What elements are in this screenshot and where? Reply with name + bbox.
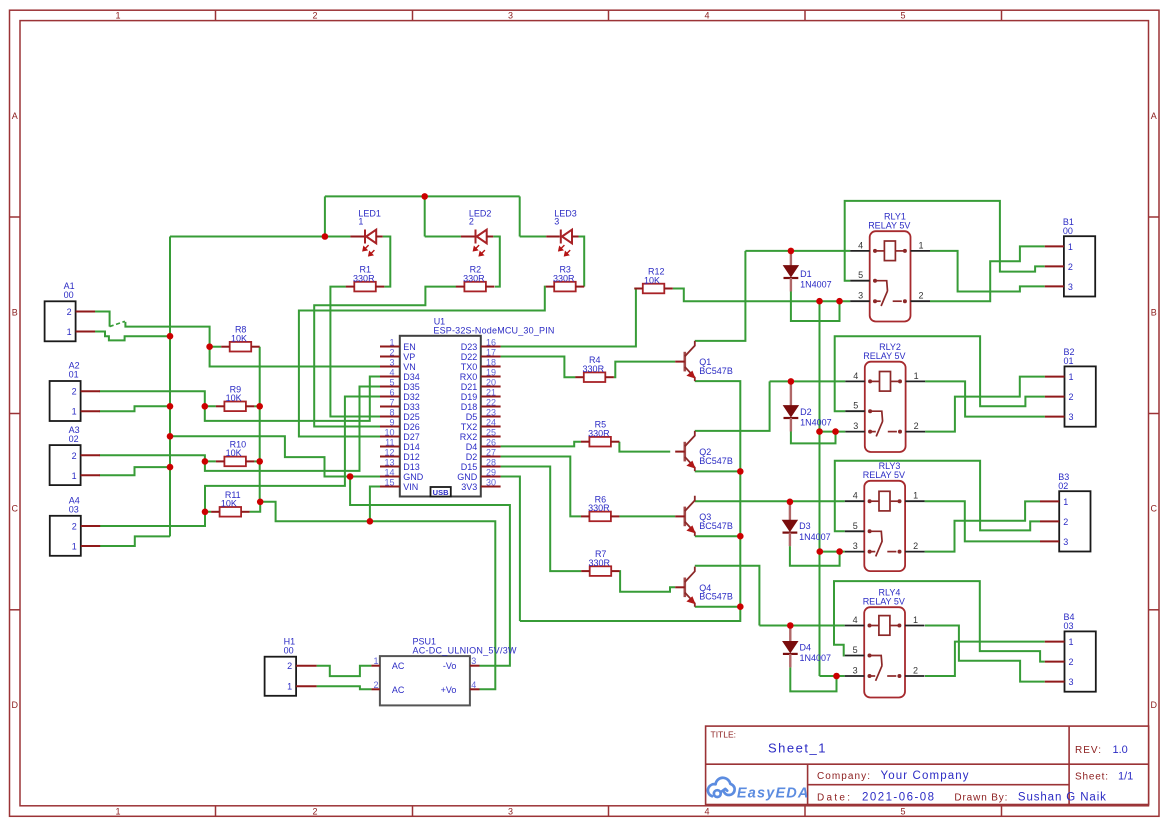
svg-text:1: 1 [1068, 242, 1073, 252]
relay RLY2 coil [868, 372, 902, 392]
relay RLY3 switch [868, 529, 902, 556]
svg-text:D12: D12 [403, 452, 420, 462]
connector A4 pin 2 [81, 525, 100, 527]
ruler column numbers bottom [115, 807, 905, 817]
svg-text:02: 02 [69, 434, 79, 444]
connector B2 body [1065, 366, 1096, 426]
LED LED1 symbol [365, 230, 376, 244]
svg-text:03: 03 [69, 505, 79, 515]
junction dot 24 [836, 298, 843, 305]
svg-text:3: 3 [389, 358, 394, 368]
resistor R10 right pin [246, 460, 255, 462]
svg-text:D25: D25 [403, 412, 420, 422]
svg-text:D2: D2 [466, 452, 478, 462]
diode D2 anode lead [790, 381, 792, 405]
resistor R7 left pin [581, 570, 590, 572]
connector B2 pin 2 [1045, 396, 1065, 398]
wire RLY1 pin1 to B1 pin3 [930, 251, 1045, 292]
IC U1 pin 17 D22 [481, 356, 501, 358]
svg-text:B: B [12, 308, 18, 318]
wire IC pin16 D23 to R12 [501, 289, 636, 347]
svg-text:5: 5 [389, 378, 394, 388]
relay RLY4 pin 3 [845, 675, 865, 677]
svg-text:D2: D2 [800, 407, 812, 417]
IC U1 pin 5 D35 [380, 386, 400, 388]
junction dot 17 [737, 533, 744, 540]
IC U1 pin 7 D33 [380, 406, 400, 408]
LED LED3 emission arrows [559, 245, 570, 256]
svg-text:D27: D27 [403, 432, 420, 442]
wire R8 right to pullup rail [259, 347, 261, 502]
svg-text:3: 3 [1063, 537, 1068, 547]
diode D3 cathode bar [783, 531, 798, 533]
svg-text:Company:: Company: [817, 771, 870, 782]
wire LED2 cathode [425, 236, 461, 238]
wire R12 to RLY1 pin3 [673, 289, 850, 302]
connector B1 labels [1063, 217, 1074, 236]
svg-text:330R: 330R [463, 273, 485, 283]
connector A2 pin 2 [81, 390, 100, 392]
svg-text:2: 2 [913, 666, 918, 676]
junction dot 11 [256, 403, 263, 410]
junction dot 26 [832, 428, 839, 435]
svg-text:D35: D35 [403, 382, 420, 392]
svg-text:330R: 330R [583, 364, 605, 374]
svg-text:ESP-32S-NodeMCU_30_PIN: ESP-32S-NodeMCU_30_PIN [433, 326, 554, 336]
resistor R4 body [584, 372, 606, 382]
junction dot 27 [817, 548, 824, 555]
resistor R6 left pin [581, 515, 590, 517]
svg-text:AC: AC [392, 685, 405, 695]
svg-text:00: 00 [64, 290, 74, 300]
junction dot 14 [367, 518, 374, 525]
svg-text:2: 2 [389, 348, 394, 358]
svg-text:9: 9 [389, 418, 394, 428]
IC U1 pin 1 EN [380, 346, 400, 348]
svg-text:28: 28 [486, 458, 496, 468]
svg-text:5: 5 [853, 401, 858, 411]
connector H1 labels [284, 636, 296, 655]
connector A1 labels [64, 281, 75, 300]
junction dot 20 [788, 378, 795, 385]
svg-text:4: 4 [853, 615, 858, 625]
svg-text:BC547B: BC547B [699, 592, 733, 602]
svg-text:1: 1 [72, 471, 77, 481]
svg-text:21: 21 [486, 388, 496, 398]
wire A2 pin1 [99, 406, 170, 411]
wire R11 right to rail [250, 502, 261, 512]
svg-text:1: 1 [913, 491, 918, 501]
title block frame [706, 726, 1149, 804]
wire LED2 rail drop [424, 196, 426, 236]
svg-text:11: 11 [385, 438, 394, 448]
LED LED2 right pin [487, 236, 494, 238]
svg-text:22: 22 [486, 398, 496, 408]
svg-text:4: 4 [704, 807, 709, 817]
svg-text:D: D [11, 700, 18, 710]
resistor R10 left pin [216, 460, 225, 462]
resistor R9 left pin [216, 405, 225, 407]
svg-text:GND: GND [403, 472, 424, 482]
wire R10 right to rail [254, 460, 259, 462]
IC U1 pin 2 VP [380, 356, 400, 358]
svg-text:REV:: REV: [1075, 745, 1101, 756]
svg-text:Sheet:: Sheet: [1075, 772, 1108, 783]
wire Q4 emitter [695, 606, 741, 608]
svg-text:330R: 330R [553, 273, 575, 283]
svg-text:Sushan G Naik: Sushan G Naik [1018, 791, 1106, 803]
wire A4 pin2 to R11 [100, 512, 211, 526]
IC U1 pin 22 D18 [481, 406, 501, 408]
svg-text:2: 2 [914, 421, 919, 431]
resistor R5 body [589, 437, 611, 447]
svg-text:2: 2 [312, 807, 317, 817]
relay RLY1 body [870, 231, 911, 321]
svg-text:19: 19 [486, 368, 496, 378]
resistor R6 body [589, 512, 611, 522]
resistor R3 left pin [546, 286, 555, 288]
svg-text:B: B [1151, 308, 1157, 318]
power module PSU1 body [380, 656, 470, 705]
diode D1 triangle [784, 266, 799, 277]
relay RLY4 pin 4 [845, 625, 865, 627]
wire LED3 rail drop right [519, 196, 521, 236]
connector B4 pin 1 [1045, 641, 1065, 643]
wire RLY4 pin1 to B4 pin3 [925, 626, 1045, 682]
svg-text:1: 1 [67, 327, 72, 337]
svg-text:10K: 10K [644, 275, 660, 285]
IC U1 pin 11 D14 [380, 446, 400, 448]
resistor R3 body [554, 282, 576, 292]
relay RLY4 coil [868, 616, 902, 636]
svg-text:2: 2 [287, 661, 292, 671]
transistor Q3 base lead [675, 515, 685, 517]
svg-text:23: 23 [486, 408, 496, 418]
svg-text:BC547B: BC547B [699, 521, 733, 531]
relay RLY2 body [865, 362, 906, 452]
resistor R1 right pin [376, 286, 385, 288]
svg-text:C: C [11, 504, 18, 514]
relay RLY4 pin 1 [905, 625, 925, 627]
junction dot 29 [833, 673, 840, 680]
transistor Q1 emitter with arrow [685, 367, 696, 381]
svg-text:RX2: RX2 [460, 432, 478, 442]
svg-text:1: 1 [287, 682, 292, 692]
wire Q2 emitter [695, 470, 741, 472]
svg-text:4: 4 [858, 240, 863, 250]
junction dot 5 [167, 433, 174, 440]
svg-text:-Vo: -Vo [443, 661, 457, 671]
svg-text:25: 25 [486, 428, 496, 438]
transistor Q2 emitter with arrow [685, 457, 696, 471]
wire LED3 anode to R3 [579, 237, 585, 287]
svg-text:D: D [1150, 700, 1157, 710]
svg-text:14: 14 [384, 468, 394, 478]
LED LED2 emission arrows [474, 245, 485, 256]
svg-text:RELAY 5V: RELAY 5V [863, 470, 905, 480]
relay RLY1 coil [873, 241, 907, 261]
wire LED2 anode to R2 [493, 237, 500, 287]
svg-text:D18: D18 [461, 402, 478, 412]
connector B2 pin 3 [1045, 416, 1065, 418]
svg-text:30: 30 [486, 478, 496, 488]
relay RLY3 pin 1 [905, 500, 925, 502]
wire D1 cathode return [791, 292, 840, 322]
svg-text:3: 3 [554, 216, 559, 226]
resistor R2 right pin [486, 286, 495, 288]
diode D3 anode lead [789, 502, 791, 520]
wire VIN node to PSU +Vo [370, 521, 495, 689]
IC U1 pin 23 D5 [481, 416, 501, 418]
svg-text:2: 2 [312, 10, 317, 20]
svg-text:4: 4 [471, 680, 476, 690]
svg-text:1: 1 [914, 371, 919, 381]
diode D3 cathode lead [789, 533, 791, 547]
wire R5 to Q2 base [619, 442, 670, 452]
svg-text:01: 01 [69, 370, 79, 380]
svg-text:D13: D13 [403, 462, 420, 472]
wire GND node to input common [170, 436, 350, 476]
transistor Q4 base lead [675, 586, 685, 588]
PSU1 pin 2 AC [371, 688, 380, 690]
transistor Q3 collector [685, 496, 695, 512]
transistor Q3 emitter with arrow [685, 522, 696, 536]
relay RLY3 pin 2 [905, 551, 925, 553]
IC U1 pin 12 D12 [380, 456, 400, 458]
junction dot 21 [787, 499, 794, 506]
wire R3 to IC pin10 D27 [299, 287, 546, 437]
connector A2 pin 1 [81, 410, 100, 412]
svg-text:BC547B: BC547B [699, 456, 733, 466]
wire rail to VIN row [260, 502, 370, 522]
diode D4 anode lead [789, 626, 791, 642]
resistor R2 body [464, 282, 486, 292]
junction dot 7 [206, 343, 213, 350]
connector A4 body [50, 516, 81, 556]
LED LED3 left pin [546, 236, 560, 238]
svg-text:26: 26 [486, 438, 496, 448]
svg-text:10K: 10K [231, 334, 247, 344]
svg-text:1: 1 [1069, 637, 1074, 647]
switch actuator dashed on A1 pin2 [110, 321, 125, 326]
IC U1 pin 6 D32 [380, 396, 400, 398]
IC U1 pin 4 D34 [380, 376, 400, 378]
wire A2 pin2 to R9 [99, 391, 215, 406]
connector A1 body [45, 301, 76, 341]
transistor Q1 base lead [675, 361, 685, 363]
wire LED cathode top rail [325, 195, 520, 197]
connector B4 labels [1064, 612, 1075, 631]
svg-text:3V3: 3V3 [461, 482, 477, 492]
svg-text:2: 2 [67, 307, 72, 317]
svg-text:3: 3 [1069, 412, 1074, 422]
svg-text:D32: D32 [403, 392, 420, 402]
svg-text:1N4007: 1N4007 [800, 418, 832, 428]
diode D4 cathode lead [789, 654, 791, 668]
resistor R4 left pin [575, 376, 584, 378]
wire LED1 anode to R1 [383, 237, 391, 287]
diode D2 cathode bar [784, 417, 799, 419]
svg-text:8: 8 [389, 408, 394, 418]
svg-text:2: 2 [469, 216, 474, 226]
svg-text:D15: D15 [461, 462, 478, 472]
resistor R7 right pin [611, 570, 620, 572]
resistor R12 body [643, 284, 665, 294]
svg-text:2: 2 [919, 291, 924, 301]
svg-text:3: 3 [508, 10, 513, 20]
IC U1 pin 30 3V3 [481, 486, 501, 488]
wire RLY2 pin1 to B2 pin3 [925, 381, 1045, 416]
svg-text:USB: USB [433, 488, 449, 497]
EasyEDA logo cloud icon [708, 778, 735, 797]
relay RLY3 pin 3 [845, 551, 865, 553]
relay RLY1 pin 2 [911, 300, 931, 302]
wire IC pin26 D4 to R5 [501, 442, 581, 447]
svg-text:VN: VN [403, 362, 416, 372]
junction dot 2 [421, 193, 428, 200]
transistor Q1 base bar [683, 352, 686, 372]
wire R8 left stub [210, 346, 222, 348]
wire RLY3 pin2 to B3 pin1 [925, 501, 1040, 551]
relay RLY2 pin 1 [906, 380, 926, 382]
svg-text:TITLE:: TITLE: [711, 730, 737, 740]
svg-text:330R: 330R [588, 503, 610, 513]
svg-text:3: 3 [853, 666, 858, 676]
svg-text:15: 15 [384, 478, 394, 488]
resistor R5 right pin [611, 441, 620, 443]
connector B4 body [1065, 631, 1096, 691]
svg-text:2021-06-08: 2021-06-08 [862, 791, 934, 803]
junction dot 22 [787, 622, 794, 629]
ruler row letters [11, 111, 1157, 710]
wire D2 cathode return [791, 432, 836, 444]
svg-text:4: 4 [389, 368, 394, 378]
relay RLY3 body [864, 481, 905, 571]
svg-text:18: 18 [486, 358, 496, 368]
connector A3 labels [69, 425, 80, 444]
wire R9 right to rail [254, 405, 259, 407]
wire R6 to Q3 base [619, 515, 675, 517]
resistor R11 body [220, 507, 242, 517]
resistor R1 left pin [346, 286, 355, 288]
connector B3 pin 2 [1040, 520, 1059, 522]
svg-text:330R: 330R [353, 273, 375, 283]
svg-text:330R: 330R [588, 429, 610, 439]
svg-text:D3: D3 [799, 521, 811, 531]
transistor Q2 base bar [683, 442, 686, 462]
svg-text:10: 10 [384, 428, 394, 438]
wire RLY3 pin3 row [820, 551, 845, 553]
svg-text:1: 1 [72, 407, 77, 417]
connector B1 pin 3 [1045, 285, 1064, 287]
connector B2 labels [1064, 347, 1075, 366]
IC U1 pin 19 RX0 [481, 376, 501, 378]
svg-text:D5: D5 [466, 412, 478, 422]
svg-text:2: 2 [1063, 517, 1068, 527]
relay RLY4 body [864, 607, 905, 697]
transistor Q4 emitter with arrow [685, 593, 696, 607]
svg-text:VP: VP [403, 352, 415, 362]
junction dot 12 [256, 458, 263, 465]
svg-text:3: 3 [471, 656, 476, 666]
junction dot 8 [202, 403, 209, 410]
LED LED1 right pin [376, 236, 383, 238]
wire H1 pin1 to PSU pin2 [317, 686, 372, 689]
IC U1 body [400, 336, 481, 497]
relay RLY2 pin 3 [845, 431, 865, 433]
svg-text:3: 3 [853, 421, 858, 431]
resistor R10 body [224, 457, 246, 467]
IC U1 pin 10 D27 [380, 436, 400, 438]
IC U1 pin 29 GND [481, 476, 501, 478]
wire input ground bus [169, 237, 171, 537]
transistor Q3 base bar [683, 507, 686, 527]
connector H1 pin 2 [296, 665, 317, 667]
wire IC pin17 D22 to R4 [501, 357, 576, 378]
svg-text:3: 3 [1069, 677, 1074, 687]
svg-text:1: 1 [913, 615, 918, 625]
connector H1 pin 1 [296, 685, 317, 687]
wire RLY1 pin5 rail to B1 pin2 [845, 201, 1045, 281]
junction dot 15 [347, 473, 354, 480]
wire R4 to Q1 base [614, 362, 675, 378]
svg-text:3: 3 [858, 291, 863, 301]
wire RLY3 pin1 to B3 pin3 [925, 501, 1040, 541]
wire ground to LED1 cathode [170, 236, 350, 238]
svg-text:BC547B: BC547B [699, 366, 733, 376]
wire RLY2 pin5 rail to B2 pin2 [835, 336, 1045, 411]
svg-text:2: 2 [913, 541, 918, 551]
svg-text:4: 4 [853, 371, 858, 381]
svg-text:13: 13 [384, 458, 394, 468]
resistor R6 right pin [611, 515, 620, 517]
svg-text:1: 1 [72, 542, 77, 552]
relay RLY4 pin 5 [845, 655, 865, 657]
svg-text:D14: D14 [403, 442, 420, 452]
resistor R8 body [230, 342, 252, 352]
IC U1 pin 21 D19 [481, 396, 501, 398]
resistor R9 body [224, 402, 246, 412]
wire RLY4 pin3 row [820, 675, 845, 677]
IC U1 pin 25 RX2 [481, 436, 501, 438]
svg-text:TX0: TX0 [461, 362, 478, 372]
wire RLY2 pin3 row [820, 431, 846, 433]
resistor R12 right pin [664, 288, 673, 290]
wire RLY2 pin4 row with D2 anode [770, 380, 846, 382]
connector B4 pin 3 [1045, 681, 1065, 683]
svg-text:4: 4 [704, 10, 709, 20]
svg-text:D4: D4 [800, 642, 812, 652]
wire LED3 cathode [520, 236, 547, 238]
wire Q3 emitter [695, 535, 741, 537]
ruler column numbers top [115, 10, 905, 20]
connector A2 body [50, 381, 81, 421]
svg-text:00: 00 [1063, 226, 1073, 236]
svg-text:TX2: TX2 [461, 422, 478, 432]
relay RLY3 pin 4 [845, 500, 865, 502]
LED LED3 symbol [561, 230, 572, 244]
svg-text:1: 1 [358, 216, 363, 226]
svg-text:D34: D34 [403, 372, 420, 382]
IC U1 pin 20 D21 [481, 386, 501, 388]
junction dot 25 [816, 428, 823, 435]
svg-text:1: 1 [373, 656, 378, 666]
wire D3 cathode return [790, 546, 840, 566]
connector A4 labels [69, 496, 80, 515]
svg-text:10K: 10K [221, 499, 237, 509]
junction dot 4 [167, 403, 174, 410]
junction dot 13 [257, 499, 264, 506]
